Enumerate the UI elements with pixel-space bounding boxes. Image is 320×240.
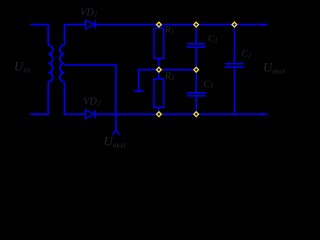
- wire center tap: [64, 65, 116, 130]
- node junction bottom C3: [194, 112, 199, 117]
- wire mid rail: [139, 70, 197, 91]
- svg-text:C2: C2: [242, 50, 252, 60]
- svg-text:VD2: VD2: [83, 97, 101, 108]
- resistor R1: [154, 25, 164, 70]
- node junction mid C: [194, 67, 199, 72]
- wire secondary bottom to diode VD2: [64, 82, 85, 114]
- diode VD1: [86, 20, 96, 29]
- node junction bottom R2: [156, 112, 161, 117]
- resistor R2: [154, 70, 164, 115]
- wire bottom input: [30, 82, 48, 114]
- capacitor C1: [187, 25, 206, 70]
- svg-text:C3: C3: [204, 80, 214, 90]
- input arrow bottom: [33, 113, 37, 116]
- svg-text:C1: C1: [208, 35, 218, 45]
- input arrow top: [33, 23, 37, 26]
- output arrow top: [262, 23, 266, 26]
- svg-text:Uвых: Uвых: [263, 60, 286, 76]
- node junction top R1: [156, 22, 161, 27]
- wire top rail: [95, 24, 268, 26]
- node junction mid R: [156, 67, 161, 72]
- capacitor C3: [187, 70, 206, 115]
- svg-text:VD1: VD1: [80, 8, 98, 19]
- transformer T1 primary winding: [48, 45, 53, 82]
- wire bottom rail: [95, 113, 268, 115]
- capacitor C2: [225, 25, 244, 115]
- wire secondary top to diode VD1: [64, 25, 85, 46]
- node junction top C2: [232, 22, 237, 27]
- center tap terminal arrow: [112, 130, 119, 135]
- node junction top C1: [194, 22, 199, 27]
- svg-text:R1: R1: [164, 26, 174, 36]
- transformer T1 secondary winding: [60, 45, 65, 82]
- svg-text:Uвх: Uвх: [14, 59, 31, 75]
- svg-text:R2: R2: [164, 72, 175, 82]
- ground: [134, 90, 144, 92]
- diode VD2: [86, 110, 96, 119]
- wire top input: [30, 25, 48, 46]
- svg-text:Uвых: Uвых: [104, 134, 127, 150]
- output arrow bottom: [262, 113, 266, 116]
